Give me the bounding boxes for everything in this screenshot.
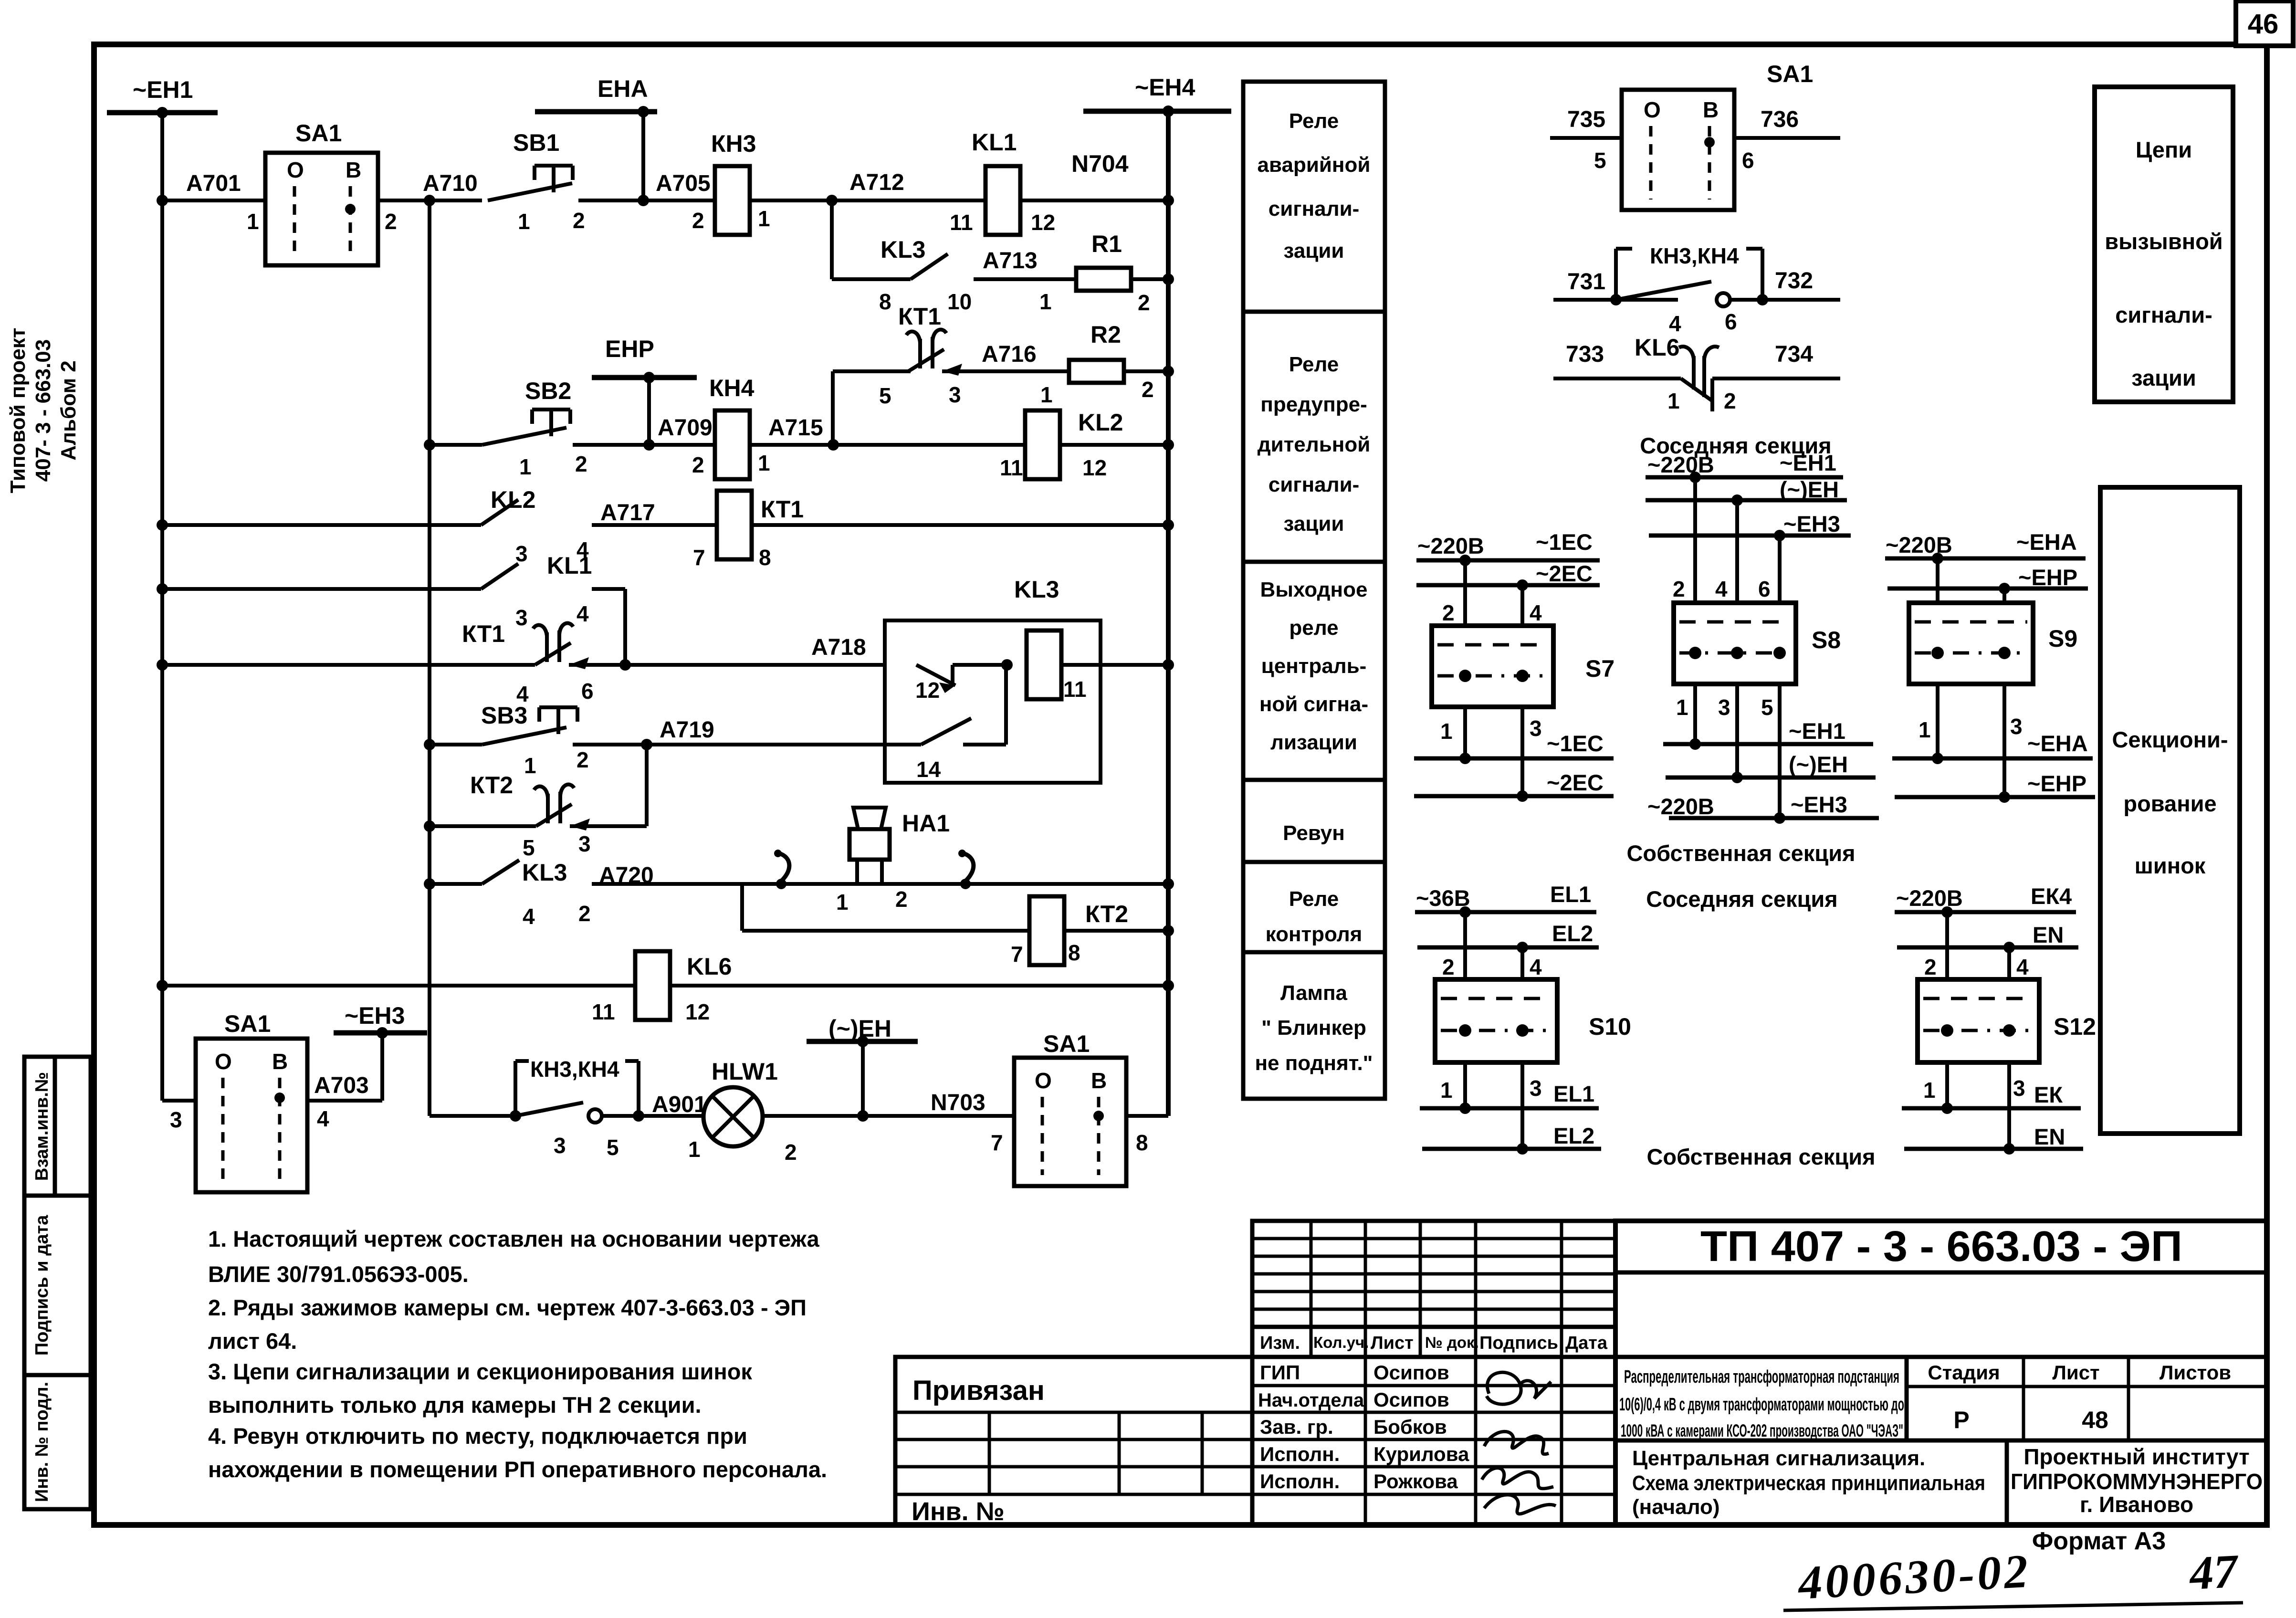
bus ~EH4 line	[1083, 109, 1231, 114]
KH3KH4 right blade	[1616, 282, 1711, 300]
svg-text:KL2: KL2	[1078, 409, 1123, 436]
svg-text:Подпись: Подпись	[1479, 1333, 1558, 1353]
row1 junction on left bus	[157, 195, 168, 206]
svg-text:2: 2	[578, 901, 591, 926]
A719 to KT2 drop wire	[645, 745, 649, 826]
svg-text:8: 8	[1068, 940, 1080, 965]
svg-text:11: 11	[592, 999, 615, 1024]
S12 bus dots upper	[1941, 906, 1953, 918]
S7 lower bus dot2	[1517, 790, 1528, 802]
svg-text:KL6: KL6	[687, 953, 732, 980]
svg-text:1: 1	[1667, 389, 1680, 413]
row3 rail junction	[1163, 519, 1174, 531]
KL3 changeover blade 12	[916, 665, 955, 685]
wire SA1 bl pin4	[307, 1099, 382, 1103]
svg-text:48: 48	[2082, 1407, 2108, 1433]
S10 upper bus 36V	[1415, 910, 1596, 914]
wire SA1 to A710	[378, 199, 482, 202]
S12 lower bus EN	[1904, 1147, 2083, 1151]
svg-text:SB2: SB2	[525, 378, 571, 404]
svg-text:1: 1	[524, 753, 536, 778]
wire A901	[602, 1114, 703, 1118]
wire A713	[974, 277, 1076, 281]
svg-text:11: 11	[1000, 455, 1023, 480]
svg-text:В: В	[1703, 97, 1719, 122]
svg-text:3: 3	[949, 382, 961, 407]
svg-text:1: 1	[519, 454, 532, 479]
wire row5 left	[162, 663, 535, 667]
svg-text:Альбом 2: Альбом 2	[57, 360, 80, 461]
svg-text:SB3: SB3	[481, 702, 527, 729]
A710 junction	[424, 195, 435, 206]
wire 731	[1553, 298, 1678, 302]
svg-text:Реле: Реле	[1289, 887, 1339, 911]
svg-text:А901: А901	[652, 1092, 707, 1117]
contact KL1 blade	[481, 564, 518, 589]
svg-text:Схема электрическая принципиал: Схема электрическая принципиальная	[1632, 1471, 1985, 1495]
KH3KH4 right junction right	[1757, 294, 1768, 305]
pushbutton SB1	[535, 164, 573, 168]
svg-text:А719: А719	[660, 717, 714, 743]
KH3KH4 junction right	[633, 1110, 644, 1122]
title stage bottom line	[1615, 1439, 2267, 1443]
KT1 to row2 drop wire	[831, 371, 835, 445]
svg-text:SB1: SB1	[513, 129, 559, 156]
title stage cols	[1905, 1357, 1909, 1440]
svg-text:А709: А709	[658, 415, 713, 441]
svg-text:Бобков: Бобков	[1373, 1416, 1447, 1438]
wire to KL3 row8	[430, 882, 482, 886]
svg-text:КТ2: КТ2	[1085, 901, 1128, 927]
svg-text:Р: Р	[1953, 1407, 1969, 1433]
svg-text:КТ2: КТ2	[470, 772, 513, 798]
svg-text:А705: А705	[656, 171, 711, 196]
wire A701	[162, 199, 265, 202]
KL3 contact 12 step	[951, 665, 954, 686]
S10 stubs down	[1463, 1062, 1467, 1108]
signature squiggle 1	[1487, 1372, 1551, 1404]
relay coil KH3	[715, 166, 750, 235]
svg-text:ЕК4: ЕК4	[2031, 883, 2072, 909]
wire 733	[1553, 377, 1681, 380]
S7 upper bus 2EC	[1416, 583, 1600, 588]
svg-text:KL6: KL6	[1635, 334, 1679, 361]
KL3 contact 14 blade	[921, 718, 971, 745]
wire 734	[1712, 377, 1840, 380]
row6 junction on A710	[424, 739, 435, 750]
svg-text:Собственная секция: Собственная секция	[1626, 841, 1855, 866]
S8 stubs down	[1693, 684, 1697, 744]
svg-text:11: 11	[1063, 677, 1087, 702]
svg-text:S9: S9	[2048, 625, 2077, 652]
wire KT1 coil to rail	[752, 523, 1168, 527]
svg-text:4: 4	[577, 601, 589, 626]
svg-text:А712: А712	[849, 170, 904, 195]
svg-text:12: 12	[1031, 210, 1055, 235]
svg-text:КН3: КН3	[711, 130, 756, 157]
svg-text:Дата: Дата	[1565, 1333, 1608, 1353]
svg-text:О: О	[1644, 97, 1661, 122]
svg-text:сигнали-: сигнали-	[2115, 302, 2212, 327]
svg-text:EL2: EL2	[1552, 921, 1593, 946]
S12 upper bus 220V	[1895, 910, 2076, 914]
svg-text:В: В	[1091, 1068, 1107, 1093]
svg-text:КТ1: КТ1	[462, 620, 505, 647]
svg-text:~ЕН3: ~ЕН3	[1791, 792, 1847, 817]
S12 stubs up	[1945, 912, 1949, 979]
wire HLW1 to SA1	[763, 1114, 1014, 1118]
pushbutton SB3	[539, 705, 577, 709]
svg-text:S7: S7	[1585, 655, 1615, 682]
svg-text:предупре-: предупре-	[1260, 393, 1367, 416]
wire KL6 to rail	[670, 984, 1168, 988]
svg-text:EN: EN	[2034, 1124, 2065, 1149]
svg-text:ЕНА: ЕНА	[598, 75, 648, 102]
svg-text:В: В	[272, 1049, 288, 1074]
svg-text:5: 5	[1761, 695, 1773, 720]
wire row3 left	[162, 523, 481, 527]
wire KH4 to KL2	[750, 443, 1025, 447]
S10 stubs up	[1463, 912, 1467, 979]
plug hook right	[964, 853, 974, 881]
wire R2 to rail	[1124, 369, 1168, 373]
svg-text:1: 1	[1919, 717, 1931, 742]
svg-text:1: 1	[1676, 695, 1688, 720]
svg-text:Лист: Лист	[2052, 1361, 2099, 1384]
bus EHA line	[535, 109, 657, 115]
svg-text:10(6)/0,4 кВ с двумя трансформ: 10(6)/0,4 кВ с двумя трансформаторами мо…	[1619, 1395, 1904, 1415]
svg-text:сигнали-: сигнали-	[1269, 473, 1360, 496]
legend row line 5	[1243, 950, 1385, 955]
svg-text:~220В: ~220В	[1417, 533, 1484, 558]
svg-text:А718: А718	[811, 635, 866, 660]
svg-text:HLW1: HLW1	[712, 1058, 778, 1085]
time contact KT1 row5 arrow	[569, 657, 589, 669]
svg-text:Проектный институт: Проектный институт	[2023, 1444, 2249, 1469]
svg-text:зации: зации	[1284, 512, 1344, 536]
title big box	[1615, 1221, 2267, 1525]
time contact KT1 arrow	[942, 364, 962, 376]
svg-text:В: В	[346, 158, 361, 182]
lamp HLW1	[703, 1087, 763, 1146]
time contact KT2 blade	[536, 804, 572, 826]
svg-text:ТП 407 - 3 - 663.03 - ЭП: ТП 407 - 3 - 663.03 - ЭП	[1700, 1223, 2182, 1271]
legend row line 3	[1243, 778, 1385, 782]
wire row9 left	[162, 984, 635, 988]
svg-text:R1: R1	[1091, 231, 1122, 257]
horn HA1	[849, 829, 890, 860]
svg-text:2: 2	[1724, 389, 1736, 413]
row5 junction A718	[619, 659, 631, 671]
S12 stubs down	[1945, 1062, 1949, 1108]
svg-text:731: 731	[1567, 269, 1605, 294]
EH3 drop wire	[380, 1033, 384, 1101]
svg-text:~2ЕС: ~2ЕС	[1536, 561, 1593, 586]
S10 upper bus EL2	[1417, 946, 1599, 950]
svg-text:KL2: KL2	[491, 486, 535, 513]
svg-text:S10: S10	[1589, 1013, 1631, 1040]
wire SB2 to KH4	[573, 443, 715, 447]
svg-text:4: 4	[523, 904, 535, 929]
svg-text:А710: А710	[423, 171, 478, 196]
signature squiggle 3	[1482, 1468, 1556, 1514]
wire KH3 to A712	[750, 199, 985, 202]
svg-text:~ЕН1: ~ЕН1	[1780, 450, 1836, 475]
svg-text:Ревун: Ревун	[1283, 821, 1345, 845]
corner box sheet number 46	[2236, 1, 2293, 46]
time contact KT1 symbol	[918, 339, 922, 368]
svg-text:1: 1	[247, 209, 259, 234]
svg-text:2: 2	[1442, 955, 1455, 979]
svg-text:2: 2	[573, 208, 585, 233]
svg-text:ЕНР: ЕНР	[605, 336, 654, 362]
svg-text:~ЕН4: ~ЕН4	[1135, 74, 1195, 101]
S7 lower bus dot1	[1459, 753, 1471, 764]
svg-text:EL1: EL1	[1553, 1081, 1594, 1106]
S10 bus dots lower	[1459, 1103, 1471, 1114]
S7 stub down right	[1520, 707, 1524, 796]
svg-text:SA1: SA1	[1767, 61, 1813, 87]
KL3 contact 14 fixed	[963, 743, 1006, 746]
svg-text:4: 4	[1715, 577, 1728, 601]
bus EHP line	[592, 375, 697, 380]
svg-text:R2: R2	[1090, 321, 1121, 348]
EHA drop wire	[641, 112, 645, 200]
svg-text:~220В: ~220В	[1647, 452, 1714, 477]
S8 bus dots lower	[1689, 738, 1701, 750]
svg-text:2: 2	[1442, 600, 1455, 625]
svg-text:~ЕН3: ~ЕН3	[1783, 511, 1840, 536]
wire to KT1 contact	[833, 369, 911, 373]
relay coil KL2	[1025, 410, 1060, 479]
svg-text:1: 1	[688, 1137, 701, 1162]
svg-text:5: 5	[879, 383, 891, 408]
svg-text:выполнить только для камеры ТН: выполнить только для камеры ТН 2 секции.	[208, 1392, 702, 1418]
svg-text:EN: EN	[2033, 922, 2064, 947]
KH3KH4 right bracket	[1614, 249, 1618, 300]
svg-text:централь-: централь-	[1261, 654, 1367, 678]
KL3 contact 14 riser	[1004, 665, 1008, 745]
svg-text:сигнали-: сигнали-	[1269, 197, 1360, 221]
svg-text:2: 2	[385, 209, 397, 234]
svg-text:Осипов: Осипов	[1373, 1361, 1449, 1384]
S8 upper bus 220V	[1646, 475, 1843, 480]
time contact KT1 blade	[908, 349, 944, 371]
svg-text:12: 12	[915, 678, 940, 703]
svg-text:Нач.отдела: Нач.отдела	[1258, 1390, 1364, 1411]
S9 stubs up	[1936, 558, 1940, 603]
row2 junction on A710	[424, 439, 435, 451]
contact KL2 blade	[481, 500, 518, 525]
svg-text:EL1: EL1	[1550, 882, 1591, 907]
handwriting underline	[1783, 1603, 2243, 1610]
S10 lower bus EL2	[1422, 1147, 1601, 1151]
svg-text:А716: А716	[982, 342, 1037, 367]
svg-text:Исполн.: Исполн.	[1260, 1470, 1340, 1492]
svg-text:2. Ряды зажимов камеры см. чер: 2. Ряды зажимов камеры см. чертеж 407-3-…	[208, 1295, 807, 1320]
wire 732	[1730, 298, 1840, 302]
S7 upper bus 220V	[1416, 558, 1600, 563]
svg-text:Курилова: Курилова	[1373, 1443, 1469, 1465]
svg-text:Кол.уч.: Кол.уч.	[1313, 1334, 1369, 1351]
wire row4 left	[162, 587, 481, 591]
svg-text:407- 3 - 663.03: 407- 3 - 663.03	[31, 339, 55, 482]
svg-text:1: 1	[1039, 289, 1052, 314]
S9 upper bus 220V	[1885, 557, 2086, 561]
svg-text:О: О	[1035, 1068, 1052, 1093]
S7 lower bus 2EC	[1414, 794, 1614, 798]
svg-text:1: 1	[1440, 719, 1453, 744]
bus ~EH1 line	[107, 110, 218, 116]
title doc number box	[1615, 1271, 2267, 1275]
svg-text:КТ1: КТ1	[761, 496, 804, 523]
S10 bus dots upper	[1459, 906, 1471, 918]
svg-text:Стадия: Стадия	[1928, 1361, 2000, 1384]
svg-text:" Блинкер: " Блинкер	[1261, 1016, 1366, 1040]
svg-text:732: 732	[1775, 268, 1813, 294]
wire A719 to KL3 box	[647, 743, 921, 746]
relay coil KH4	[715, 410, 750, 479]
svg-text:Секциони-: Секциони-	[2112, 727, 2228, 752]
svg-text:3: 3	[1530, 1076, 1542, 1101]
KT2 branch drop wire	[740, 884, 744, 931]
row8b rail junction	[1163, 925, 1174, 936]
signature table frame	[1252, 1357, 1615, 1525]
svg-text:KL3: KL3	[522, 859, 567, 886]
svg-text:~ЕНР: ~ЕНР	[2018, 565, 2077, 590]
A712 branch drop wire	[830, 200, 834, 279]
svg-text:7: 7	[1011, 942, 1023, 967]
bus EHA junction	[638, 106, 649, 117]
svg-text:вызывной: вызывной	[2105, 229, 2223, 254]
svg-text:~ЕНА: ~ЕНА	[2016, 529, 2077, 555]
svg-text:НА1: НА1	[902, 810, 950, 837]
bus EHP junction	[643, 372, 655, 383]
svg-text:SA1: SA1	[1043, 1030, 1090, 1057]
row9 rail junction	[1163, 980, 1174, 991]
box Цепи вызывной сигнализации	[2095, 87, 2233, 402]
svg-text:Привязан: Привязан	[912, 1375, 1045, 1406]
svg-text:~36В: ~36В	[1416, 885, 1470, 911]
S7 stub down left	[1463, 707, 1467, 758]
svg-text:KL1: KL1	[972, 129, 1017, 156]
svg-text:5: 5	[1594, 148, 1606, 173]
plug hook left	[779, 853, 789, 881]
svg-text:КН3,КН4: КН3,КН4	[530, 1057, 619, 1082]
KL3 inner junction	[1001, 659, 1013, 671]
svg-text:2: 2	[692, 208, 704, 233]
title mini table	[1252, 1221, 1615, 1327]
svg-text:Зав. гр.: Зав. гр.	[1260, 1416, 1333, 1438]
bus ~EH3 line	[334, 1030, 427, 1036]
relay coil KL3	[1027, 630, 1061, 699]
svg-text:Инв. №: Инв. №	[912, 1497, 1005, 1526]
svg-text:N704: N704	[1071, 150, 1129, 177]
svg-text:лизации: лизации	[1270, 731, 1357, 754]
S9 stubs down	[1936, 684, 1940, 758]
contact KL6 latching	[1692, 356, 1696, 389]
S9 upper bus EHP	[1887, 587, 2088, 591]
svg-text:SA1: SA1	[295, 120, 342, 147]
EHA row1 junction	[638, 195, 649, 206]
svg-text:1. Настоящий чертеж составлен: 1. Настоящий чертеж составлен на основан…	[208, 1226, 819, 1251]
svg-text:(~)ЕН: (~)ЕН	[1789, 752, 1848, 777]
bus (~)EH junction	[857, 1036, 869, 1047]
KH3KH4 contact blade	[515, 1103, 583, 1116]
wire KT2 coil to rail	[1064, 929, 1168, 933]
svg-text:Выходное: Выходное	[1260, 578, 1368, 601]
svg-text:KL3: KL3	[1014, 576, 1059, 603]
left title block frame	[895, 1357, 1252, 1525]
title header row	[1252, 1327, 1615, 1357]
wire 736	[1734, 136, 1840, 140]
svg-text:А713: А713	[983, 248, 1038, 273]
svg-text:Центральная сигнализация.: Центральная сигнализация.	[1632, 1447, 1925, 1470]
svg-text:ГИПРОКОММУНЭНЕРГО: ГИПРОКОММУНЭНЕРГО	[2011, 1469, 2263, 1494]
svg-text:1: 1	[1440, 1078, 1453, 1103]
S9 bus dots upper	[1932, 553, 1943, 564]
svg-text:~ЕНА: ~ЕНА	[2027, 731, 2088, 756]
svg-text:4: 4	[1530, 955, 1542, 979]
legend table frame	[1243, 82, 1385, 1099]
legend row line 1	[1243, 310, 1385, 314]
svg-text:47: 47	[2187, 1544, 2241, 1600]
row8 rail junction	[1163, 878, 1174, 890]
svg-text:3: 3	[1530, 716, 1542, 741]
svg-text:2: 2	[1924, 955, 1937, 979]
svg-text:3: 3	[2010, 714, 2023, 739]
svg-text:Лампа: Лампа	[1280, 981, 1348, 1005]
S12 lower bus EK	[1902, 1106, 2081, 1111]
A710 bus wire	[428, 200, 431, 1116]
svg-text:КН4: КН4	[709, 375, 755, 401]
svg-text:1000 кВА с камерами КСО-202 пр: 1000 кВА с камерами КСО-202 производства…	[1621, 1421, 1903, 1440]
switch SA1 bottom right box	[1014, 1058, 1126, 1186]
svg-text:~220В: ~220В	[1647, 794, 1714, 819]
svg-text:(начало): (начало)	[1632, 1495, 1720, 1519]
svg-text:6: 6	[1725, 309, 1737, 334]
svg-text:4: 4	[2016, 955, 2029, 979]
switch SA1 bottom left box	[196, 1039, 307, 1192]
svg-text:10: 10	[947, 289, 972, 314]
row5 junction on left bus	[157, 659, 168, 671]
bus (~)EH line	[807, 1039, 918, 1044]
svg-text:№ док.: № док.	[1425, 1334, 1479, 1351]
svg-text:зации: зации	[1284, 239, 1344, 263]
bus ~EH1 junction	[157, 107, 168, 118]
svg-text:Собственная секция: Собственная секция	[1646, 1144, 1875, 1169]
margin table Инв № подл cell	[24, 1375, 91, 1509]
legend row line 4	[1243, 860, 1385, 864]
svg-text:8: 8	[1136, 1130, 1148, 1155]
svg-text:~ЕН1: ~ЕН1	[1789, 718, 1845, 744]
S7 stub up right	[1520, 585, 1524, 626]
svg-text:8: 8	[879, 289, 891, 314]
switch block S12	[1918, 979, 2039, 1062]
svg-text:КТ1: КТ1	[898, 303, 941, 330]
A715 junction	[828, 439, 839, 451]
svg-text:Взам.инв.№: Взам.инв.№	[32, 1072, 52, 1181]
svg-text:7: 7	[991, 1130, 1003, 1155]
svg-text:SA1: SA1	[224, 1010, 271, 1037]
margin table Взам.инв.№ cell	[24, 1057, 91, 1196]
svg-text:шинок: шинок	[2135, 853, 2206, 878]
svg-text:~ЕН1: ~ЕН1	[133, 76, 193, 103]
svg-text:734: 734	[1775, 342, 1813, 367]
wire KL2 to rail	[1060, 443, 1168, 447]
svg-text:12: 12	[1082, 455, 1107, 480]
pushbutton SB2	[532, 408, 570, 411]
